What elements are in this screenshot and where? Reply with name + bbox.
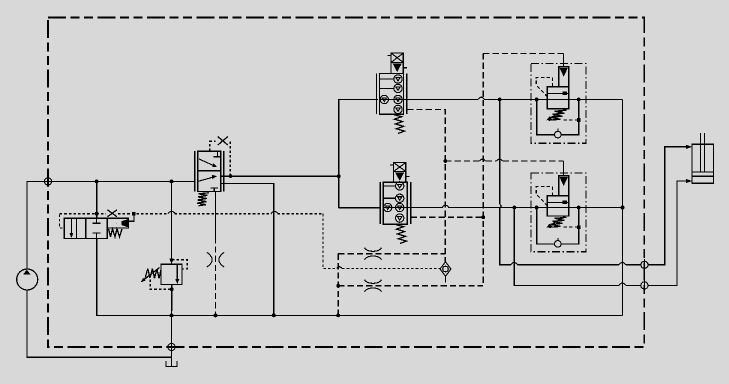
- RV1 drain wire to tank port: [171, 285, 173, 344]
- PR1 spring: [547, 109, 567, 120]
- pump P1: [17, 269, 38, 290]
- LS header dashed with orifice O1: [338, 248, 445, 260]
- junction dot bypass on bus: [272, 314, 276, 318]
- wire feed riser to V1 and V2: [339, 100, 381, 208]
- port B circle: [641, 280, 648, 291]
- junction dot PV1 outlet pilot tap: [229, 174, 233, 178]
- pressure valve PR1 enclosure: [531, 64, 586, 144]
- wire SV1 outlet down to tank bus: [97, 238, 623, 315]
- wire V1 outlet line to PR1 and right riser: [407, 97, 623, 99]
- relief valve RV1 feed wire: [169, 181, 173, 264]
- junction dot drain on bus: [214, 314, 218, 318]
- V1 spring: [394, 115, 405, 134]
- PV1 bottom position flow path: [198, 175, 218, 192]
- PR1 body: [547, 87, 569, 109]
- cylinder CYL1: [692, 133, 714, 183]
- PR2 pilot dashed loop: [536, 187, 552, 206]
- port T circle: [166, 341, 177, 352]
- port P circle: [44, 176, 51, 187]
- junction dot LS branch: [443, 159, 447, 163]
- LS dashed V2 load port: [411, 216, 484, 218]
- wire right return riser: [622, 100, 624, 316]
- junction dot LS trunk: [481, 215, 485, 219]
- pilot dotted jog over dashed vertical: [337, 267, 441, 269]
- PV1 drain dashed with orifice: [207, 192, 224, 316]
- orifice cross symbol on SV1 pilot: [108, 210, 117, 217]
- solenoid unloading valve SV1 body: [64, 218, 107, 238]
- SV1 proportional solenoid: [107, 218, 128, 228]
- junction dots V outlet lines: [498, 98, 625, 210]
- SV1 pilot dotted left loop: [60, 215, 64, 228]
- PV1 body: [198, 151, 221, 191]
- RV1 spring drain dotted: [150, 280, 172, 290]
- proportional valve V1 body: [377, 74, 407, 115]
- port A circle: [641, 259, 648, 270]
- junction dot pump line / RV1 feed: [170, 180, 174, 184]
- relief valve RV1 body: [161, 264, 182, 284]
- PV1 top position flow path: [199, 151, 221, 167]
- shuttle fitting F1: [440, 262, 451, 286]
- PR2 spring vent dashed: [564, 225, 581, 229]
- PV1 spring: [197, 193, 209, 206]
- junction dot RV1 drain: [170, 287, 174, 291]
- wire PV1 bypass to tank bus: [221, 183, 274, 315]
- pressure valve PR2 enclosure: [531, 173, 586, 252]
- wire branch to port B: [514, 208, 641, 286]
- V2 spring: [396, 225, 407, 244]
- SV1 spring: [109, 229, 123, 237]
- wire branch to port A: [500, 100, 641, 265]
- LS dashed trunk riser: [483, 53, 563, 285]
- V1 proportional solenoid with X: [388, 53, 407, 74]
- PV1 pilot dashed with orifice cross: [210, 137, 231, 177]
- junction dot feed branch: [337, 174, 341, 178]
- junction dot SV1 pilot tap: [95, 212, 99, 216]
- PR2 spring: [547, 216, 567, 227]
- junction dot pump line / SV1 feed: [95, 180, 99, 184]
- wire port A to cylinder head side: [648, 145, 692, 265]
- PR2 solenoid cartridge: [559, 161, 569, 196]
- RV1 pilot dotted sense: [172, 260, 187, 269]
- pilot dotted line across y=213.7: [60, 211, 323, 213]
- V2 check cartridges: [384, 182, 404, 223]
- PR1 spring vent dashed: [564, 118, 581, 122]
- pilot dotted line corner down to LS header: [323, 214, 337, 269]
- wire V2 outlet line to PR2: [411, 205, 623, 207]
- proportional valve V2 body: [380, 182, 410, 224]
- LS header dashed with orifice O2: [338, 280, 483, 292]
- PR1 solenoid cartridge: [559, 53, 569, 86]
- junction dots LS bleed: [336, 284, 340, 317]
- LS dashed V1 load port: [407, 110, 445, 263]
- PR2 body: [547, 196, 569, 216]
- wire V1 main line through body: [380, 99, 407, 101]
- RV1 spring: [141, 268, 161, 283]
- wire pump outlet to port P: [27, 181, 195, 269]
- V1 check cartridges: [380, 75, 402, 114]
- wire port B to cylinder rod side: [648, 179, 692, 286]
- junction dot RV1 drain on bus: [170, 314, 174, 318]
- SV1 pilot stub to solenoid: [128, 212, 135, 221]
- PR1 pilot dashed loop: [536, 78, 552, 97]
- priority compensator valve PV1 end plates: [195, 151, 224, 191]
- wire pump suction to tank: [27, 290, 172, 357]
- wire PV1 outlet to valves: [221, 175, 339, 177]
- wire V2 main line through body: [383, 207, 410, 209]
- manifold enclosure dashed border: [48, 18, 644, 348]
- PR1 bypass loop with gauge orifice: [537, 100, 579, 138]
- LS dashed branch to PR2 pilot: [445, 159, 563, 161]
- LS bleed dashed riser to bus: [337, 254, 339, 316]
- V2 proportional solenoid with X: [390, 163, 409, 183]
- wire feed into SV1 from pump line: [96, 181, 98, 218]
- tank T1: [166, 351, 177, 367]
- PR2 bypass loop with gauge orifice: [537, 208, 579, 248]
